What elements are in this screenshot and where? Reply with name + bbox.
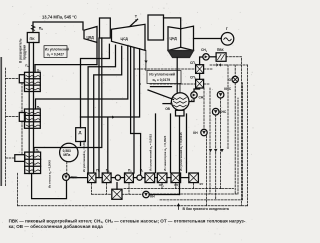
svg-text:ЦВД: ЦВД [87, 35, 95, 39]
svg-text:ка; ОВ — обессоленная добавочн: ка; ОВ — обессоленная добавочная вода [9, 223, 104, 229]
svg-text:ОТ: ОТ [229, 78, 234, 82]
svg-text:продувки: продувки [22, 45, 26, 60]
svg-text:П6: П6 [37, 106, 41, 111]
svg-text:Из уплотнений: Из уплотнений [45, 47, 69, 51]
svg-text:ЭУ: ЭУ [199, 182, 203, 186]
svg-text:Из отсоса αу = 0,0043: Из отсоса αу = 0,0043 [48, 160, 53, 188]
svg-text:ПК: ПК [30, 37, 36, 41]
svg-text:ЦСД: ЦСД [121, 37, 129, 41]
svg-text:Д: Д [79, 130, 82, 135]
svg-text:ПВК: ПВК [217, 48, 225, 52]
svg-text:Из эжекторов αу = 0,0023: Из эжекторов αу = 0,0023 [163, 135, 168, 171]
svg-text:В бак грязного конденсата: В бак грязного конденсата [183, 207, 229, 211]
svg-text:Из уплотнений αу = 0,0015: Из уплотнений αу = 0,0015 [149, 134, 154, 171]
svg-text:Из уплотнений αу = 0,0111: Из уплотнений αу = 0,0111 [83, 139, 87, 172]
svg-text:αу = 0,0427: αу = 0,0427 [47, 52, 64, 57]
svg-text:ЦНД: ЦНД [170, 37, 178, 41]
svg-text:КНС: КНС [224, 87, 231, 91]
svg-text:ПЭН: ПЭН [71, 176, 79, 180]
svg-text:КН: КН [150, 194, 155, 198]
svg-text:Из уплотнений αу = 0,00115: Из уплотнений αу = 0,00115 [179, 132, 184, 171]
svg-text:МПа: МПа [63, 153, 70, 157]
svg-text:13,74 МПа, 545 °С: 13,74 МПа, 545 °С [42, 15, 77, 20]
svg-text:КН: КН [193, 131, 198, 135]
svg-text:КНС: КНС [220, 110, 227, 114]
svg-text:ОВ: ОВ [165, 107, 170, 111]
